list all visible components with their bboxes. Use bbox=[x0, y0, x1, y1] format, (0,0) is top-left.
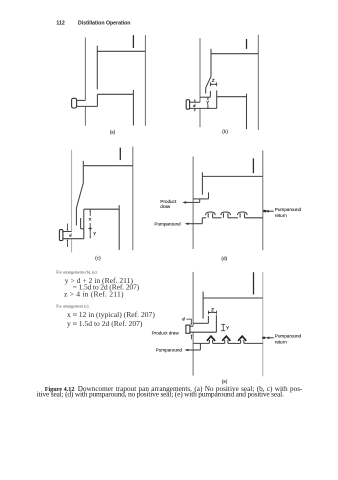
(d) pumparound line bbox=[187, 223, 203, 225]
(b) lower tray bbox=[217, 96, 247, 98]
(e) pumparound line bbox=[186, 349, 200, 351]
(e) dimension d label bbox=[183, 319, 185, 321]
(e) downcomer stub from tray above bbox=[253, 272, 255, 294]
(c) seal ledge bbox=[81, 228, 84, 230]
(e) vapor up-arrow through tray riser 2 bbox=[222, 336, 230, 343]
svg-text:For arrangement (c):: For arrangement (c): bbox=[56, 304, 89, 309]
(c) dimension x label bbox=[89, 218, 91, 220]
(d) product draw arrowhead bbox=[182, 201, 186, 204]
(e) pumparound return nozzle stub bbox=[262, 337, 265, 339]
(b) downcomer stub from tray above bbox=[246, 39, 248, 49]
(c) downcomer lip bbox=[75, 208, 77, 226]
(d) right column wall bbox=[262, 151, 264, 251]
(d) product draw jog bbox=[199, 199, 201, 203]
(b) dimension d lower arrow bbox=[194, 109, 196, 111]
(b) seal weir bbox=[209, 91, 211, 97]
(b) dimension d label bbox=[193, 105, 195, 107]
svg-text:112: 112 bbox=[56, 20, 64, 26]
svg-text:x ≈ 12 in (typical) (Ref. 207): x ≈ 12 in (typical) (Ref. 207) bbox=[67, 310, 155, 319]
(c) dimension d lower arrow bbox=[66, 240, 68, 247]
(d) lower tray segment 1 bbox=[202, 217, 206, 219]
(e) dimension y line bbox=[222, 324, 224, 330]
(c) draw pipe top bbox=[63, 231, 72, 233]
(b) pan right wall bbox=[216, 90, 218, 108]
(c) dimension d label bbox=[69, 235, 71, 237]
(c) lower tray bbox=[84, 208, 119, 210]
(e) dimension d lower arrow bbox=[191, 335, 193, 339]
(a) draw nozzle flange bbox=[72, 98, 77, 108]
(b) dimension y arrow lower bbox=[207, 104, 209, 108]
(b) dimension y label bbox=[207, 101, 209, 104]
svg-text:Pumparound: Pumparound bbox=[156, 348, 183, 353]
(e) dimension z label bbox=[212, 309, 214, 311]
(d) lower tray segment 4 bbox=[245, 217, 263, 219]
(b) pan floor / draw pipe bottom bbox=[190, 107, 217, 109]
(e) draw nozzle flange bbox=[186, 325, 190, 333]
(c) dimension mid tick bbox=[88, 228, 92, 230]
(c) dimension x arrow bottom bbox=[89, 223, 91, 229]
(e) pan floor / draw pipe bottom bbox=[190, 331, 217, 333]
(c) downcomer vertical upper bbox=[82, 161, 84, 183]
(d) lower tray segment 3 bbox=[228, 217, 238, 219]
(b) downcomer wall slant bbox=[206, 77, 211, 88]
svg-text:itive seal; (d) with pumparoun: itive seal; (d) with pumparound, no posi… bbox=[37, 390, 284, 399]
(b) downcomer lip bbox=[205, 88, 207, 94]
(e) draw pipe top bbox=[190, 325, 193, 327]
(e) dimension z arrow line bbox=[208, 312, 216, 314]
(d) downcomer stub from tray above bbox=[252, 158, 254, 173]
svg-text:z > 4 in (Ref. 211): z > 4 in (Ref. 211) bbox=[64, 290, 124, 299]
(b) dimension z left tick bbox=[209, 82, 211, 86]
(b) dimension z right tick bbox=[216, 82, 218, 86]
(a) left column wall upper bbox=[84, 38, 86, 101]
(e) left column wall lower bbox=[192, 332, 194, 375]
svg-text:return: return bbox=[275, 213, 287, 218]
(a) right column wall bbox=[144, 35, 146, 126]
(e) lower tray segment 1 bbox=[193, 342, 209, 344]
(e) pumparound jog bbox=[199, 343, 201, 350]
(c) dimension d upper arrow bbox=[66, 224, 68, 231]
(e) pumparound return arrow bbox=[267, 337, 274, 339]
(e) dimension z right tick bbox=[215, 311, 217, 315]
(d) pumparound jog bbox=[201, 218, 203, 224]
(a) downcomer wall bbox=[96, 46, 98, 90]
svg-text:(d): (d) bbox=[222, 257, 228, 262]
(c) pan floor / draw pipe bottom bbox=[63, 238, 84, 240]
(d) bubble cap 2 bbox=[221, 212, 230, 218]
(e) dimension d leader bbox=[186, 319, 191, 324]
(b) seal ledge bbox=[200, 96, 210, 98]
(d) downcomer wall bbox=[201, 172, 203, 194]
(a) draw pipe top line bbox=[77, 99, 86, 101]
(c) downcomer slant bbox=[76, 183, 83, 208]
(c) left column wall lower bbox=[71, 239, 73, 253]
(d) bubble cap 3 bbox=[238, 212, 247, 218]
(b) dimension z label bbox=[212, 79, 214, 81]
(c) lower tray downcomer bbox=[118, 205, 120, 250]
svg-text:return: return bbox=[275, 339, 287, 344]
(b) downcomer wall vertical bbox=[210, 49, 212, 77]
(d) left column wall bbox=[192, 157, 194, 250]
(b) dimension d upper arrow bbox=[194, 99, 196, 101]
(b) left column wall lower bbox=[199, 108, 201, 127]
(d) pan right wall bbox=[208, 192, 210, 199]
(e) vapor up-arrow through tray riser 3 bbox=[238, 336, 246, 343]
(a) draw pipe bottom line bbox=[77, 105, 98, 107]
(e) dimension y tick top bbox=[221, 323, 225, 325]
(b) draw nozzle flange bbox=[186, 100, 189, 110]
(e) vapor up-arrow through tray riser 1 bbox=[207, 336, 215, 343]
(b) left column wall upper bbox=[199, 38, 201, 102]
(b) upper tray bbox=[211, 53, 258, 55]
(e) upper tray bbox=[203, 297, 263, 299]
(c) dimension y arrow bbox=[89, 229, 91, 239]
svg-text:(c): (c) bbox=[95, 256, 101, 261]
(a) pan riser to draw pipe bbox=[96, 94, 98, 106]
svg-text:Pumparound: Pumparound bbox=[275, 207, 302, 212]
(b) dimension z arrow line bbox=[210, 83, 216, 85]
(e) lower tray segment 4 bbox=[244, 342, 263, 344]
(b) dimension y arrow upper bbox=[207, 97, 209, 100]
(e) dimension y label bbox=[226, 326, 228, 329]
svg-text:Product draw: Product draw bbox=[152, 330, 180, 335]
(c) downcomer stub from tray above bbox=[119, 148, 121, 161]
(e) pumparound arrowhead bbox=[184, 349, 188, 352]
(a) trapout pan floor bbox=[97, 93, 133, 95]
(e) dimension y tick bottom bbox=[221, 330, 225, 332]
(b) right column wall bbox=[257, 35, 259, 130]
(a) downcomer stub from tray above bbox=[132, 35, 134, 48]
(e) dimension z left tick bbox=[207, 311, 209, 315]
(a) upper tray bbox=[97, 50, 145, 52]
svg-text:y ≈ 1.5d to 2d (Ref. 207): y ≈ 1.5d to 2d (Ref. 207) bbox=[67, 319, 143, 328]
(e) lower tray segment 3 bbox=[228, 342, 241, 344]
(d) pumparound arrowhead bbox=[185, 222, 189, 225]
(d) bubble cap 1 bbox=[206, 212, 215, 218]
(e) left column wall upper bbox=[192, 272, 194, 326]
(c) upper tray bbox=[84, 165, 133, 167]
(a) left column wall lower bbox=[84, 106, 86, 125]
(b) draw pipe top bbox=[190, 101, 200, 103]
(c) draw nozzle flange bbox=[59, 230, 63, 241]
(d) lower tray segment 2 bbox=[213, 217, 222, 219]
(e) seal ledge bbox=[193, 322, 208, 324]
svg-text:Pumparound: Pumparound bbox=[275, 334, 302, 339]
svg-text:draw: draw bbox=[160, 204, 171, 209]
(c) left column wall upper bbox=[71, 150, 73, 232]
(d) pumparound return nozzle stub bbox=[263, 210, 266, 212]
(c) seal weir bbox=[80, 218, 82, 229]
(c) dimension x arrow top bbox=[89, 210, 91, 216]
(e) downcomer wall bbox=[202, 292, 204, 319]
svg-text:(a): (a) bbox=[110, 131, 116, 136]
(d) product draw line bbox=[184, 201, 199, 203]
(e) right column wall bbox=[262, 272, 264, 376]
svg-text:Distillation Operation: Distillation Operation bbox=[78, 20, 130, 26]
(c) right column wall bbox=[132, 147, 134, 251]
(b) lower tray downcomer bbox=[246, 94, 248, 130]
(d) upper tray bbox=[203, 175, 263, 177]
svg-text:(b): (b) bbox=[222, 130, 228, 135]
(c) draw pan end plate bbox=[83, 209, 85, 239]
(e) pan right wall bbox=[215, 315, 217, 332]
svg-text:Pumparound: Pumparound bbox=[154, 222, 181, 227]
(e) seal weir bbox=[207, 316, 209, 323]
(c) dimension y label bbox=[94, 232, 96, 235]
(a) pan outlet weir and downcomer to tray below bbox=[132, 90, 134, 126]
(d) pumparound return arrow bbox=[267, 210, 274, 212]
(d) pan floor bbox=[193, 198, 208, 200]
(e) lower tray segment 2 bbox=[213, 342, 225, 344]
